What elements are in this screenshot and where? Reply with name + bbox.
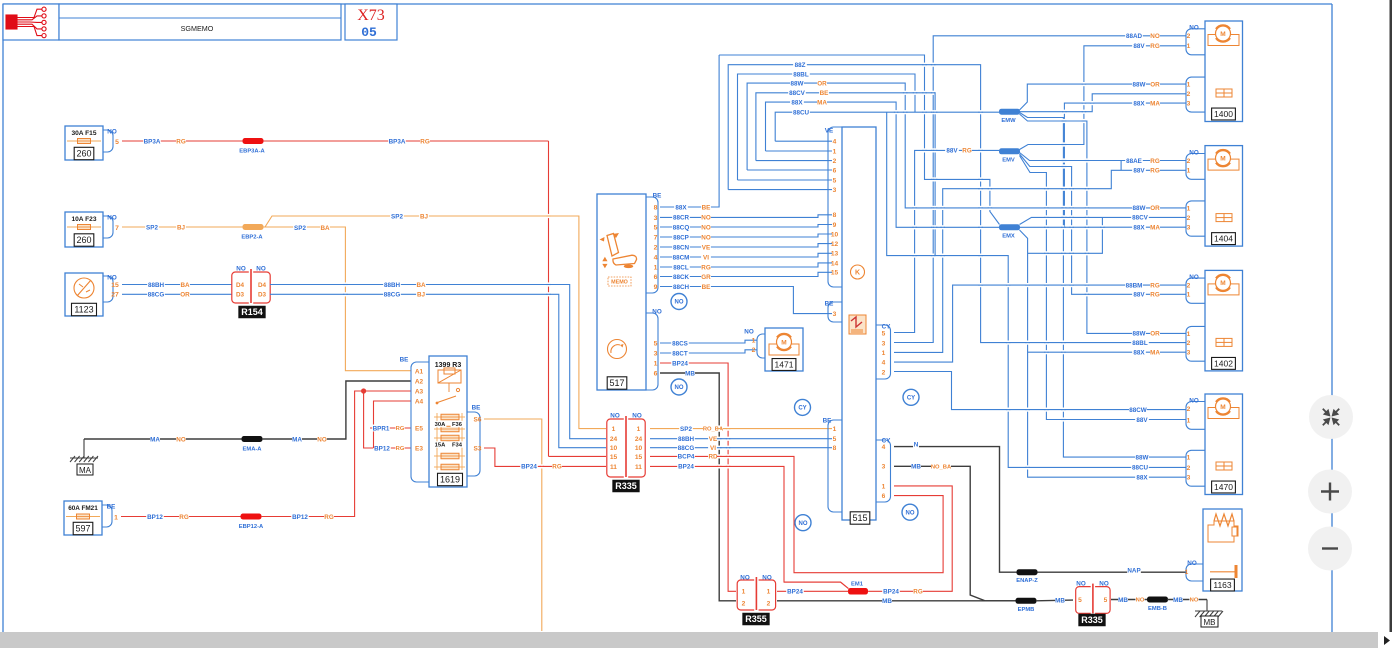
svg-text:MB: MB	[882, 598, 892, 605]
pin bracket NO 2/1 of 1470	[1186, 402, 1205, 430]
svg-text:1: 1	[767, 589, 771, 596]
svg-text:88W: 88W	[791, 80, 804, 87]
svg-text:MB: MB	[1173, 597, 1183, 604]
left pin bracket VE of 515 (pins 4 1 2 6 5 3 / 8 9 10 12 13 14 15)	[828, 127, 842, 287]
svg-text:NO: NO	[256, 265, 266, 272]
svg-text:OR: OR	[817, 80, 827, 87]
wire crossing gap marks	[895, 110, 897, 114]
circled NO icon right of 515 bottom	[902, 504, 918, 520]
svg-text:10A F23: 10A F23	[71, 216, 96, 223]
pin bracket NO of 517 (pins 5 3 1 6)	[646, 313, 658, 390]
svg-text:OR: OR	[1150, 331, 1160, 338]
svg-text:MEMO: MEMO	[611, 279, 628, 285]
svg-text:D3: D3	[236, 292, 245, 299]
svg-text:2: 2	[1187, 282, 1191, 289]
svg-text:MA: MA	[1150, 349, 1160, 356]
svg-text:A1: A1	[415, 368, 424, 375]
frame left border line	[2, 4, 4, 632]
svg-text:E3: E3	[415, 445, 423, 452]
svg-text:NO: NO	[317, 436, 327, 443]
svg-text:88V: 88V	[946, 148, 958, 155]
svg-text:88CH: 88CH	[673, 284, 690, 291]
svg-text:EMV: EMV	[1002, 158, 1015, 164]
wire 88CG-BJ from R154 to R335 pin 10	[270, 294, 606, 447]
svg-text:88CQ: 88CQ	[673, 224, 690, 231]
svg-text:30A: 30A	[435, 422, 446, 428]
wire 88V-RG from EMV fan to 1402 pin 1	[1020, 154, 1187, 294]
relay contact symbol inside 1619	[456, 388, 459, 391]
ground MB symbol	[1206, 600, 1208, 612]
svg-text:1: 1	[1185, 569, 1189, 576]
wire 88BH-BA from 1123 pin 15 to R154	[122, 284, 232, 286]
svg-text:88CK: 88CK	[673, 274, 690, 281]
splice EPMB	[1016, 598, 1037, 604]
svg-text:MA: MA	[79, 466, 92, 475]
label 1470	[1212, 481, 1236, 493]
frame right border line	[1331, 4, 1333, 632]
svg-text:88CT: 88CT	[672, 350, 688, 357]
pin bracket NO 2/1 of 1404	[1186, 154, 1205, 180]
pin bracket NO 2/1 of 1402	[1186, 278, 1205, 303]
svg-text:SP2: SP2	[680, 426, 692, 433]
svg-text:27: 27	[111, 292, 119, 299]
svg-text:1404: 1404	[1214, 234, 1233, 244]
svg-text:88CW: 88CW	[1129, 407, 1147, 414]
svg-text:BP12: BP12	[147, 514, 163, 521]
svg-text:515: 515	[852, 513, 867, 523]
svg-text:OR: OR	[180, 292, 190, 299]
svg-text:88X: 88X	[1133, 224, 1145, 231]
svg-text:88X: 88X	[1133, 349, 1145, 356]
svg-text:1: 1	[1187, 43, 1191, 50]
svg-text:88X: 88X	[791, 99, 803, 106]
svg-text:R355: R355	[745, 614, 767, 624]
pin bracket NO of 1471 (pins 1 2)	[757, 334, 765, 358]
svg-text:MA: MA	[1150, 100, 1160, 107]
harness icon (red connector with 5 traces)	[6, 7, 46, 38]
svg-text:3: 3	[654, 215, 658, 222]
svg-text:3: 3	[1187, 350, 1191, 357]
splice EBP3A-A	[263, 140, 392, 142]
svg-text:NO: NO	[762, 574, 772, 581]
svg-text:BCP4: BCP4	[678, 454, 695, 461]
svg-text:CY: CY	[907, 395, 915, 401]
connector R355	[737, 580, 754, 610]
svg-text:BP24: BP24	[521, 464, 537, 471]
svg-text:BA: BA	[180, 282, 190, 289]
svg-text:BP12: BP12	[292, 514, 308, 521]
splice EBP2-A	[243, 224, 264, 230]
svg-text:MA: MA	[292, 436, 302, 443]
svg-text:6: 6	[654, 274, 658, 281]
nest wire 88CU into splice EMW	[775, 112, 999, 141]
svg-text:RG: RG	[1150, 292, 1160, 299]
wire BP3A-RG from splice to node (549,141)	[392, 140, 549, 142]
svg-text:NO: NO	[632, 412, 642, 419]
circled NO icon left of 515 bottom	[795, 515, 811, 531]
wire 88CN-VE from 517 pin 2 to 515	[660, 244, 832, 247]
svg-text:BA: BA	[320, 225, 330, 232]
svg-text:2: 2	[1187, 465, 1191, 472]
wire 88CL-RG from 517 pin 1 to 515	[660, 263, 832, 267]
motor icon of 1402	[1208, 284, 1239, 295]
unit 1123 box	[65, 273, 103, 316]
pin bracket 1/2/3 of 1400	[1186, 77, 1205, 112]
motor icon of 1470	[1208, 408, 1239, 419]
svg-text:NO: NO	[107, 214, 117, 221]
svg-text:RO_BA: RO_BA	[703, 427, 724, 433]
svg-text:M: M	[1220, 31, 1225, 38]
svg-text:88AE: 88AE	[1126, 158, 1142, 165]
svg-text:88V: 88V	[1136, 417, 1148, 424]
svg-text:NO: NO	[1187, 560, 1197, 567]
svg-text:9: 9	[654, 284, 658, 291]
position sensor icon of 1402	[1216, 338, 1232, 346]
svg-text:BP24: BP24	[787, 589, 803, 596]
svg-text:NO: NO	[1189, 397, 1199, 404]
svg-text:RG: RG	[1150, 168, 1160, 175]
svg-text:BJ: BJ	[417, 292, 426, 299]
svg-text:RD: RD	[708, 454, 718, 461]
svg-text:15: 15	[635, 454, 643, 461]
nest wire 88X-MA into splice EMX	[766, 102, 1000, 227]
circled NO icon below NO bracket	[671, 379, 687, 395]
svg-text:VI: VI	[703, 254, 709, 261]
svg-text:5: 5	[833, 436, 837, 443]
svg-text:RG: RG	[420, 138, 430, 145]
svg-text:1: 1	[1187, 331, 1191, 338]
svg-text:OR: OR	[1150, 205, 1160, 212]
svg-text:GR: GR	[701, 274, 711, 281]
svg-text:88V: 88V	[1133, 168, 1145, 175]
svg-text:NO_BA: NO_BA	[931, 464, 952, 470]
svg-text:1400: 1400	[1214, 109, 1233, 119]
svg-text:4: 4	[654, 254, 658, 261]
svg-text:EM1: EM1	[851, 582, 864, 588]
label 1163	[1211, 579, 1235, 591]
wire 88CQ-NO from 517 pin 5 to 515	[660, 225, 832, 228]
svg-text:EBP3A-A: EBP3A-A	[239, 149, 265, 155]
svg-text:2: 2	[767, 600, 771, 607]
svg-text:5: 5	[833, 177, 837, 184]
svg-text:2: 2	[742, 600, 746, 607]
svg-text:S3: S3	[474, 445, 482, 452]
svg-text:NO: NO	[236, 265, 246, 272]
svg-text:SP2: SP2	[294, 225, 306, 232]
actuator unit 1400 box	[1205, 21, 1243, 122]
svg-text:88BH: 88BH	[678, 436, 695, 443]
svg-text:S6: S6	[474, 416, 482, 423]
svg-text:8: 8	[833, 212, 837, 219]
svg-text:88CS: 88CS	[672, 340, 688, 347]
wire 88V from EMV fan to 1470 pin 1	[1020, 156, 1187, 420]
svg-text:3: 3	[882, 464, 886, 471]
svg-text:15: 15	[111, 282, 119, 289]
wire CY pin 1 red to EM1 right side	[868, 486, 952, 591]
motor icon inside 1471	[769, 344, 799, 355]
svg-text:1: 1	[833, 426, 837, 433]
svg-text:NO: NO	[176, 436, 186, 443]
svg-text:15: 15	[831, 270, 839, 277]
svg-text:RG: RG	[1150, 158, 1160, 165]
svg-text:MB: MB	[1118, 597, 1128, 604]
wire N from CY pin 4 down to splice ENAP-Z	[894, 447, 1186, 573]
wire BP24-RG from relay S3 to R335 pin 11	[484, 448, 606, 466]
seat icon inside 517	[607, 234, 637, 266]
title block - harness icon box	[3, 4, 59, 40]
svg-text:2: 2	[654, 244, 658, 251]
svg-text:88V: 88V	[1133, 43, 1145, 50]
fuse FM21 box (60A, component 597)	[64, 501, 102, 535]
svg-text:BPR1: BPR1	[373, 425, 390, 432]
splice EBP12-A	[241, 514, 262, 520]
wire 88X-MA from EMX row up to 1400 pin 3	[1064, 103, 1186, 227]
nest wire 88CV-BE down to crossover row	[756, 93, 935, 256]
svg-text:88CG: 88CG	[678, 445, 695, 452]
socket contact icon of 1163	[1210, 571, 1236, 573]
wire 88CU branch crossover to 1470 pin 2 lower	[887, 112, 1186, 467]
svg-text:NO: NO	[107, 274, 117, 281]
wire 88W-OR from EMW fan up to 1400 pin 1 lower	[1020, 84, 1187, 110]
svg-text:SGMEMO: SGMEMO	[181, 24, 214, 33]
svg-text:88V: 88V	[1133, 292, 1145, 299]
zoom out button	[1308, 527, 1352, 571]
svg-text:1: 1	[1187, 205, 1191, 212]
wire BP3A vertical down to R335 pin 15	[548, 141, 550, 456]
nest wire row y55 (88X-BE) to EMX left fan	[719, 55, 999, 225]
svg-text:6: 6	[882, 493, 886, 500]
svg-text:RG: RG	[396, 446, 405, 452]
svg-text:3: 3	[1187, 225, 1191, 232]
svg-text:1: 1	[882, 350, 886, 357]
svg-text:05: 05	[361, 25, 377, 40]
svg-text:MA: MA	[150, 436, 160, 443]
svg-text:1: 1	[1187, 418, 1191, 425]
svg-text:1: 1	[882, 483, 886, 490]
svg-text:517: 517	[609, 378, 624, 388]
svg-text:88CN: 88CN	[673, 244, 690, 251]
svg-text:3: 3	[833, 311, 837, 318]
svg-text:1471: 1471	[775, 360, 794, 370]
wire 88AE-RG from EMV fan to 1404 pin 2	[1020, 153, 1187, 161]
svg-text:NO: NO	[1150, 33, 1160, 40]
svg-text:NO: NO	[701, 224, 711, 231]
svg-text:15A: 15A	[435, 443, 446, 449]
wire 88CS from 517 pin 5 to 1471 pin 1	[660, 340, 757, 343]
wire MB-NO_BA from CY pin 3 down to EPMB row	[894, 466, 1016, 601]
wire SP2-BA from splice to relay pin A1	[263, 227, 411, 371]
right pin bracket CY of 515 (pins 5 3 1 4 2)	[876, 325, 891, 379]
svg-text:M: M	[781, 339, 786, 346]
svg-text:1: 1	[1187, 168, 1191, 175]
svg-text:BJ: BJ	[177, 224, 186, 231]
svg-text:88W: 88W	[1133, 331, 1146, 338]
svg-text:EMA-A: EMA-A	[243, 447, 263, 453]
pin bracket 1/2/3 of 1470	[1186, 450, 1205, 486]
svg-text:88CU: 88CU	[1132, 465, 1149, 472]
svg-text:RG: RG	[552, 464, 562, 471]
wire SP2-BJ from F23 to splice EBP2-A	[122, 226, 243, 228]
svg-text:1: 1	[637, 426, 641, 433]
svg-text:NO: NO	[701, 234, 711, 241]
right pin bracket of 1619 (S6 S3)	[467, 412, 480, 476]
svg-text:1: 1	[654, 264, 658, 271]
zoom in button	[1308, 470, 1352, 514]
connector R335 bottom (pin 5)	[1076, 587, 1091, 614]
svg-text:RG: RG	[701, 264, 711, 271]
heated-seat icon inside 515	[849, 315, 866, 334]
wire BP24 from R335 pin 11 to splice EM1	[650, 466, 848, 588]
svg-text:88CG: 88CG	[148, 292, 165, 299]
actuator unit 1470 box	[1205, 394, 1243, 495]
svg-text:2: 2	[1187, 33, 1191, 40]
wire MB-NO from bottom R335 to splice EMB-B	[1111, 599, 1148, 601]
svg-text:EMW: EMW	[1001, 118, 1016, 124]
svg-text:10: 10	[635, 445, 643, 452]
svg-text:88BL: 88BL	[793, 71, 809, 78]
svg-text:OR: OR	[1150, 81, 1160, 88]
svg-text:24: 24	[610, 436, 618, 443]
svg-text:2: 2	[752, 347, 756, 354]
svg-text:1: 1	[742, 589, 746, 596]
svg-text:CY: CY	[798, 406, 806, 412]
splice ENAP-Z	[1017, 569, 1038, 575]
pin bracket BE/3 of 515	[828, 302, 842, 322]
position sensor icon of 1470	[1216, 462, 1232, 470]
svg-text:5: 5	[882, 330, 886, 337]
svg-text:M: M	[1220, 404, 1225, 411]
staircase joint at 1404 pins	[1120, 161, 1122, 171]
round icon inside 517	[608, 340, 627, 359]
svg-text:NO: NO	[675, 300, 684, 306]
wire 88CG-OR from 1123 pin 27 to R154	[122, 293, 232, 295]
motor icon of 1404	[1208, 159, 1239, 170]
svg-text:6: 6	[654, 370, 658, 377]
svg-text:2: 2	[1187, 340, 1191, 347]
wire 88AD-NO from CY pin 3 to 1400 pin 2	[894, 36, 1186, 343]
svg-text:5: 5	[654, 224, 658, 231]
svg-text:RG: RG	[176, 138, 186, 145]
svg-text:NO: NO	[906, 510, 915, 516]
svg-text:EMX: EMX	[1002, 234, 1015, 240]
fuses F36/F34 ladder inside 1619	[436, 413, 438, 470]
svg-text:1: 1	[612, 426, 616, 433]
svg-text:NO: NO	[610, 412, 620, 419]
svg-text:M: M	[1220, 155, 1225, 162]
wire 88CR-NO from 517 pin 3 to 515	[660, 215, 832, 218]
MEMO label inside 517	[608, 277, 631, 286]
wire MB-NO from EMB-B to ground MB	[1167, 599, 1207, 601]
svg-text:260: 260	[76, 149, 91, 159]
svg-text:E5: E5	[415, 425, 423, 432]
svg-text:88BM: 88BM	[1126, 282, 1143, 289]
wire 88CV from EMX fan up to 1404 pin 2 lower	[1020, 217, 1187, 224]
branch stub on 88CV row	[1028, 217, 1103, 253]
svg-text:NO: NO	[1190, 598, 1199, 604]
svg-text:NO: NO	[1189, 274, 1199, 281]
svg-text:8: 8	[654, 204, 658, 211]
pin bracket NO/5 of F15	[103, 130, 113, 152]
svg-text:88CV: 88CV	[1132, 215, 1149, 222]
wire SP2-BJ branch to R335 pin 1	[265, 216, 606, 429]
svg-text:RG: RG	[962, 148, 972, 155]
svg-text:1: 1	[1187, 292, 1191, 299]
svg-text:NAP: NAP	[1127, 567, 1140, 574]
svg-text:3: 3	[1187, 100, 1191, 107]
splice EMA-A	[242, 436, 263, 442]
wire MA-NO from splice to relay pin A2	[262, 381, 411, 439]
svg-text:SP2: SP2	[391, 213, 403, 220]
circled CY icon left of 515	[795, 399, 811, 415]
svg-text:2: 2	[833, 158, 837, 165]
svg-text:NO: NO	[1189, 25, 1199, 32]
svg-text:88CG: 88CG	[384, 292, 401, 299]
splice EM1	[848, 588, 868, 595]
svg-text:4: 4	[882, 360, 886, 367]
wire 88CH-BE from 517 pin 9 to 515 pin 3 (BE)	[660, 287, 832, 314]
svg-text:1619: 1619	[440, 475, 460, 485]
svg-text:13: 13	[831, 251, 839, 258]
svg-text:1: 1	[1187, 81, 1191, 88]
svg-text:BE: BE	[825, 300, 834, 307]
pin bracket BE bottom of 515 (pins 1 5 8)	[828, 420, 842, 512]
svg-text:15: 15	[610, 454, 618, 461]
svg-text:EBP12-A: EBP12-A	[239, 524, 264, 530]
svg-text:5: 5	[1104, 597, 1108, 604]
svg-text:2: 2	[1187, 406, 1191, 413]
svg-text:K: K	[855, 270, 860, 277]
wire BP3A-RG from F15 to splice EBP3A-A	[122, 140, 243, 142]
svg-text:NO: NO	[799, 521, 808, 527]
wire BCP4-RD from R335 pin 15 to 515 CY pin 6	[650, 456, 943, 572]
svg-text:BP3A: BP3A	[144, 138, 161, 145]
svg-text:3: 3	[1187, 475, 1191, 482]
svg-text:BJ: BJ	[420, 213, 429, 220]
svg-text:1470: 1470	[1214, 482, 1233, 492]
scrollbar track	[0, 632, 1394, 648]
svg-text:MB: MB	[685, 370, 695, 377]
svg-text:F36: F36	[452, 422, 463, 428]
svg-text:2: 2	[1187, 158, 1191, 165]
svg-text:NO: NO	[1076, 580, 1086, 587]
label 1404	[1212, 233, 1236, 245]
svg-text:EMB-B: EMB-B	[1148, 606, 1167, 612]
svg-text:NO: NO	[675, 385, 684, 391]
wire 88X-MA from EMX fan down to 1402 pin 3 and 1470 pin 3	[1020, 230, 1187, 477]
svg-text:88BH: 88BH	[148, 282, 165, 289]
wire from EMW to 1400 pin 2 lower	[1020, 94, 1187, 112]
svg-text:4: 4	[882, 444, 886, 451]
unit 1163 box (accessory socket)	[1203, 509, 1242, 591]
svg-text:NO: NO	[652, 308, 662, 315]
wire 88W from EMW fan to 1470 pin 1 lower	[1020, 113, 1187, 458]
svg-text:2: 2	[1187, 215, 1191, 222]
svg-text:RG: RG	[1150, 43, 1160, 50]
svg-text:5: 5	[654, 340, 658, 347]
svg-text:88X: 88X	[1136, 474, 1148, 481]
connector R335	[607, 419, 624, 477]
svg-text:4: 4	[833, 139, 837, 146]
svg-text:EPMB: EPMB	[1018, 607, 1035, 613]
wire 88CM-VI from 517 pin 4 to 515	[660, 253, 832, 257]
svg-text:597: 597	[75, 524, 90, 534]
pin bracket NO 15/27 of 1123	[103, 276, 113, 302]
pin bracket 1/2/3 of 1402	[1186, 326, 1205, 361]
unit 1471 box (motor)	[765, 328, 803, 371]
wire 88BM-RG from CY pin 4 to 1402 pin 2	[894, 285, 1186, 362]
svg-text:RG: RG	[913, 589, 923, 596]
svg-text:88X: 88X	[675, 204, 687, 211]
